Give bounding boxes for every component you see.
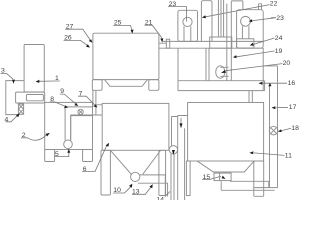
band pipe from box A to right assembly [159, 41, 264, 48]
flow arrow in duct [180, 118, 183, 129]
label 18 [278, 125, 299, 132]
label 9 [60, 88, 78, 106]
box A left leg [92, 80, 102, 91]
label 24 [250, 35, 283, 46]
fan 23b circle [241, 16, 251, 26]
label 22 [202, 1, 278, 19]
block between towers [210, 37, 232, 48]
inner box under tank 1 [26, 95, 43, 101]
label 23 right [249, 15, 284, 22]
pipe below fan 23b [242, 26, 249, 39]
pipe from box2 to box6 lower [71, 114, 103, 116]
label 26 [64, 35, 90, 48]
box 11 right leg [254, 161, 264, 196]
valve 18 (circle with X) [269, 126, 278, 135]
pipe between box6 and box11 [172, 116, 188, 201]
casing jog to pipe 17 [263, 65, 277, 67]
label 17 [272, 104, 297, 111]
pipe down to pump 5 [65, 107, 71, 140]
svg-text:4: 4 [5, 116, 9, 123]
pump 12 between boxes [169, 146, 177, 155]
label 23 left [168, 1, 187, 22]
valve 4 (rect with X) [18, 104, 23, 114]
box 11 [188, 103, 264, 162]
label 5 [54, 149, 70, 158]
box 24 inside tower 2 [237, 39, 254, 48]
svg-text:18: 18 [291, 125, 299, 132]
svg-text:19: 19 [275, 48, 283, 55]
box 11 left leg [186, 161, 190, 196]
label 2 [21, 132, 50, 140]
label 25 [113, 20, 133, 34]
label 14 [157, 192, 171, 204]
cylinder fan 20 [216, 66, 229, 78]
svg-text:11: 11 [285, 153, 292, 160]
box 6 left leg [101, 150, 110, 195]
funnel of box 6 [111, 151, 161, 175]
box 2 left leg [45, 150, 55, 162]
box 6 [102, 103, 169, 150]
label 11 [249, 151, 292, 159]
svg-text:22: 22 [270, 1, 278, 8]
downcomer pipe [227, 1, 243, 81]
tower 2 [237, 10, 264, 49]
svg-text:24: 24 [275, 35, 283, 42]
pipe 3 loop [6, 81, 24, 115]
svg-text:20: 20 [283, 60, 291, 67]
flange on band [166, 39, 169, 48]
bottom plumbing under box 11 [221, 181, 277, 190]
small pump 9 (circle with X) [78, 109, 83, 114]
svg-text:23: 23 [276, 15, 284, 22]
flow arrow in pipe 17 [268, 83, 271, 87]
label 27 [65, 23, 92, 42]
box 2 [45, 102, 93, 149]
box A (component 25/26/27) [93, 33, 159, 79]
tank 1 [24, 45, 44, 93]
label 20 [221, 60, 290, 73]
shallow hopper under box A [105, 80, 148, 87]
pipe from box2 to box6 upper [65, 106, 93, 108]
svg-text:16: 16 [288, 80, 296, 87]
inner weir in box 2 [71, 116, 93, 141]
label 13 [132, 184, 153, 195]
label 15 [202, 174, 226, 181]
box 2 right leg [83, 150, 93, 162]
label 1 [36, 75, 60, 83]
chamber walls [178, 48, 263, 90]
label 21 [144, 19, 163, 42]
label 10 [113, 184, 132, 195]
discharge device 15 [214, 173, 231, 181]
label 4 [5, 113, 20, 123]
svg-text:17: 17 [289, 104, 297, 111]
outer box under tank 1 [16, 92, 45, 103]
label 6 [82, 143, 109, 173]
label 19 [233, 48, 283, 58]
outlet circle 10 [131, 172, 140, 181]
pipe below fan 23a [184, 26, 191, 41]
base platform 16 [178, 81, 265, 91]
top pipes between towers [201, 0, 223, 41]
fan 23a circle [183, 17, 192, 26]
riser pipes under box A left leg [93, 90, 102, 115]
label 8 [50, 96, 69, 108]
pump 12 discharge pipe [171, 154, 174, 200]
label 7 [78, 90, 97, 107]
box 6 right leg [159, 150, 166, 195]
label 16 [259, 80, 296, 87]
discharge duct from funnel 10 [138, 175, 168, 197]
svg-text:14: 14 [157, 197, 165, 201]
box A right leg [149, 80, 159, 91]
label 3 [1, 68, 16, 84]
tower 1 [178, 10, 198, 41]
pump 5 circle [64, 140, 73, 149]
vent stub on tower 2 [259, 4, 262, 10]
pipe wall right of flow arrow [184, 128, 186, 200]
inlet pipe into box 11 top [249, 91, 252, 103]
funnel of box 11 [197, 161, 254, 172]
pipe 17 walls [270, 66, 278, 188]
